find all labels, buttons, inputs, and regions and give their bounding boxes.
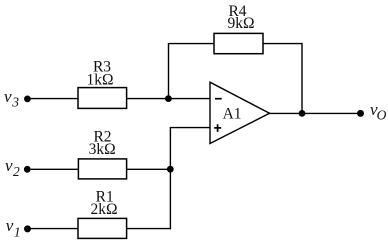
svg-text:v: v	[4, 87, 12, 106]
svg-text:9kΩ: 9kΩ	[227, 15, 254, 32]
svg-text:A1: A1	[223, 106, 242, 123]
svg-text:O: O	[377, 108, 387, 123]
svg-text:1: 1	[14, 225, 21, 240]
svg-text:1kΩ: 1kΩ	[86, 72, 113, 89]
svg-text:3: 3	[11, 95, 19, 110]
svg-text:2: 2	[13, 164, 20, 179]
svg-text:2kΩ: 2kΩ	[90, 201, 117, 218]
svg-text:3kΩ: 3kΩ	[89, 141, 116, 158]
svg-text:v: v	[6, 216, 14, 235]
svg-text:v: v	[5, 156, 13, 175]
